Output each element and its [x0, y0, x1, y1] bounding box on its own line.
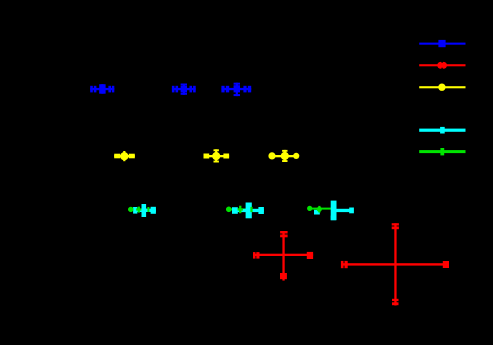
legend entry green	[419, 148, 465, 155]
green data point G2 error bar	[226, 208, 252, 210]
green data point G1 error bar	[128, 209, 149, 211]
cyan data point C3 left cap	[314, 210, 320, 215]
yellow data point Y3	[268, 150, 299, 162]
red data point R1	[253, 231, 313, 281]
legend entry blue	[419, 40, 465, 47]
cyan data point C1	[133, 204, 156, 217]
legend entry cyan	[419, 127, 465, 134]
legend entry red	[419, 62, 465, 69]
cyan data point C2	[232, 203, 264, 219]
green data point G2 markers	[226, 206, 253, 214]
legend entry yellow	[419, 84, 465, 91]
cyan data point C3	[331, 201, 354, 221]
legend entry red marker notch bottom	[442, 68, 443, 70]
blue data point B3	[221, 83, 251, 96]
green data point G1 markers	[128, 207, 149, 213]
legend entry red marker notch top	[442, 61, 443, 63]
yellow data point Y1	[114, 151, 135, 161]
blue data point B2	[172, 84, 196, 95]
blue data point B1	[90, 84, 114, 94]
green data point G3 error bar	[307, 208, 331, 210]
yellow data point Y2	[204, 149, 230, 162]
green data point G3 markers	[307, 206, 322, 213]
red data point R2	[341, 223, 449, 305]
